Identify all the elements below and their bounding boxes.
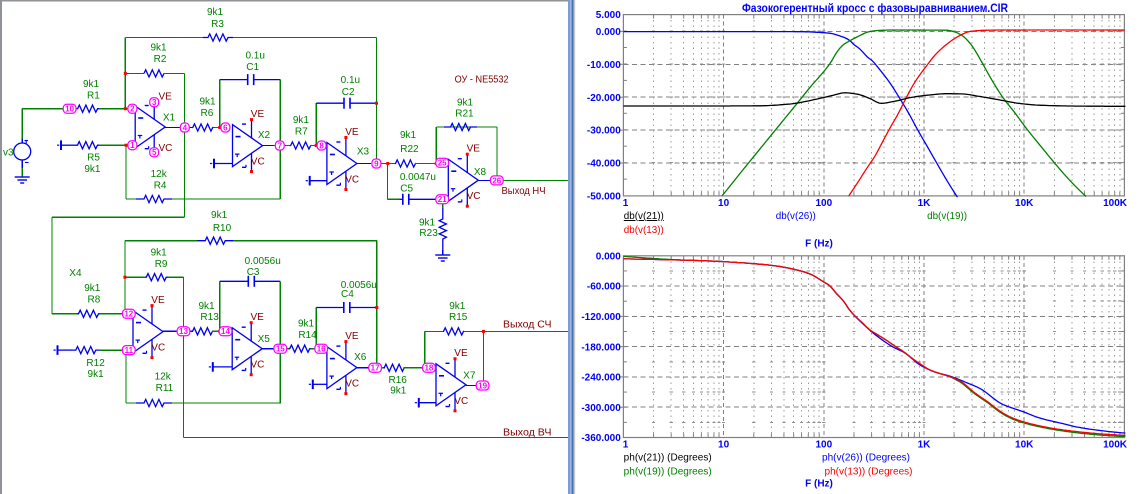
svg-text:F (Hz): F (Hz) xyxy=(805,238,833,249)
svg-text:R1: R1 xyxy=(87,91,100,102)
svg-text:9k1: 9k1 xyxy=(211,210,228,221)
svg-text:X7: X7 xyxy=(463,370,476,381)
svg-text:R3: R3 xyxy=(211,19,224,30)
svg-text:VE: VE xyxy=(251,312,265,323)
svg-text:R13: R13 xyxy=(200,312,219,323)
svg-text:9k1: 9k1 xyxy=(150,43,167,54)
svg-text:100K: 100K xyxy=(1103,440,1128,451)
svg-text:9k1: 9k1 xyxy=(84,283,101,294)
svg-text:17: 17 xyxy=(371,364,380,373)
svg-text:0.0047u: 0.0047u xyxy=(400,172,436,183)
svg-text:VC: VC xyxy=(345,175,359,186)
svg-text:R4: R4 xyxy=(154,180,167,191)
svg-text:6: 6 xyxy=(223,123,228,132)
svg-text:8: 8 xyxy=(319,141,324,150)
svg-text:VC: VC xyxy=(251,157,265,168)
svg-text:X5: X5 xyxy=(258,334,271,345)
svg-text:9k1: 9k1 xyxy=(293,115,310,126)
svg-text:X3: X3 xyxy=(357,147,370,158)
svg-text:R11: R11 xyxy=(156,383,174,394)
svg-text:19: 19 xyxy=(478,381,487,390)
svg-text:12k: 12k xyxy=(151,169,168,180)
svg-text:0.1u: 0.1u xyxy=(341,75,360,86)
svg-text:7: 7 xyxy=(278,141,283,150)
svg-text:100: 100 xyxy=(815,198,832,209)
svg-text:VC: VC xyxy=(251,360,265,371)
svg-text:X2: X2 xyxy=(258,130,271,141)
svg-text:0.000: 0.000 xyxy=(596,27,621,38)
svg-text:12: 12 xyxy=(124,310,133,319)
svg-text:10K: 10K xyxy=(1015,440,1034,451)
svg-text:2: 2 xyxy=(130,105,135,114)
svg-text:9k1: 9k1 xyxy=(88,369,105,380)
svg-text:db(v(19)): db(v(19)) xyxy=(927,211,967,222)
svg-text:R16: R16 xyxy=(389,375,408,386)
svg-text:-30.000: -30.000 xyxy=(587,126,621,137)
svg-text:10: 10 xyxy=(718,440,730,451)
svg-text:16: 16 xyxy=(317,345,326,354)
svg-text:-20.000: -20.000 xyxy=(587,93,621,104)
svg-text:VC: VC xyxy=(467,191,481,202)
svg-text:C2: C2 xyxy=(342,87,355,98)
svg-text:18: 18 xyxy=(424,364,433,373)
svg-text:C5: C5 xyxy=(400,183,413,194)
svg-text:VC: VC xyxy=(159,143,173,154)
svg-text:X1: X1 xyxy=(163,113,176,124)
svg-text:9k1: 9k1 xyxy=(419,218,436,229)
svg-text:9k1: 9k1 xyxy=(198,301,215,312)
svg-text:26: 26 xyxy=(492,176,501,185)
svg-text:C3: C3 xyxy=(247,267,260,278)
svg-text:VE: VE xyxy=(345,127,359,138)
svg-text:5: 5 xyxy=(152,148,157,157)
svg-text:VC: VC xyxy=(345,379,359,390)
svg-text:21: 21 xyxy=(438,195,447,204)
svg-text:VE: VE xyxy=(251,109,265,120)
svg-text:db(v(21)): db(v(21)) xyxy=(624,211,664,222)
svg-text:ph(v(26)) (Degrees): ph(v(26)) (Degrees) xyxy=(822,453,910,464)
svg-text:9k1: 9k1 xyxy=(390,386,407,397)
svg-text:0.0056u: 0.0056u xyxy=(245,256,281,267)
svg-text:R7: R7 xyxy=(295,126,308,137)
svg-text:9k1: 9k1 xyxy=(151,248,168,259)
svg-text:11: 11 xyxy=(125,346,134,355)
svg-text:VE: VE xyxy=(467,144,481,155)
svg-text:VE: VE xyxy=(159,92,173,103)
svg-text:X4: X4 xyxy=(69,268,82,279)
svg-text:9k1: 9k1 xyxy=(207,7,224,18)
svg-text:R23: R23 xyxy=(419,228,438,239)
svg-text:R5: R5 xyxy=(87,153,100,164)
svg-text:-120.000: -120.000 xyxy=(581,312,621,323)
svg-text:1K: 1K xyxy=(918,198,932,209)
svg-text:1: 1 xyxy=(130,141,135,150)
svg-text:1K: 1K xyxy=(918,440,932,451)
svg-text:-300.000: -300.000 xyxy=(581,403,621,414)
svg-text:-240.000: -240.000 xyxy=(581,373,621,384)
svg-text:db(v(13)): db(v(13)) xyxy=(624,225,664,236)
svg-text:9k1: 9k1 xyxy=(298,319,315,330)
svg-text:R14: R14 xyxy=(298,330,317,341)
svg-text:5.000: 5.000 xyxy=(596,10,621,21)
svg-text:9: 9 xyxy=(374,159,379,168)
svg-text:9k1: 9k1 xyxy=(83,79,100,90)
svg-text:100K: 100K xyxy=(1103,198,1128,209)
svg-text:10: 10 xyxy=(718,198,730,209)
svg-text:Выход ВЧ: Выход ВЧ xyxy=(503,428,552,439)
svg-text:Фазокогерентный кросс с фазовы: Фазокогерентный кросс с фазовыравнивание… xyxy=(742,1,1008,15)
svg-text:10K: 10K xyxy=(1015,198,1034,209)
svg-text:R6: R6 xyxy=(201,108,214,119)
svg-text:13: 13 xyxy=(179,327,188,336)
svg-text:0.1u: 0.1u xyxy=(245,50,264,61)
svg-text:14: 14 xyxy=(221,327,230,336)
svg-text:VE: VE xyxy=(151,295,165,306)
svg-text:X8: X8 xyxy=(474,167,487,178)
svg-text:0.000: 0.000 xyxy=(596,251,621,262)
svg-text:C4: C4 xyxy=(341,289,354,300)
svg-text:-40.000: -40.000 xyxy=(587,159,621,170)
svg-text:9k1: 9k1 xyxy=(199,96,216,107)
svg-text:R21: R21 xyxy=(455,108,474,119)
svg-text:X6: X6 xyxy=(354,352,367,363)
svg-text:15: 15 xyxy=(276,345,285,354)
svg-text:VE: VE xyxy=(345,331,359,342)
svg-text:-60.000: -60.000 xyxy=(587,282,621,293)
svg-text:10: 10 xyxy=(65,105,74,114)
svg-text:-180.000: -180.000 xyxy=(581,342,621,353)
svg-text:VC: VC xyxy=(151,343,165,354)
svg-text:12k: 12k xyxy=(155,372,172,383)
svg-text:-50.000: -50.000 xyxy=(587,192,621,203)
svg-text:ph(v(13)) (Degrees): ph(v(13)) (Degrees) xyxy=(825,466,913,477)
svg-text:9k1: 9k1 xyxy=(457,98,474,109)
svg-text:VC: VC xyxy=(454,396,468,407)
svg-text:100: 100 xyxy=(815,440,832,451)
svg-text:v3: v3 xyxy=(3,148,14,159)
svg-text:Выход СЧ: Выход СЧ xyxy=(503,319,552,330)
svg-text:ph(v(21)) (Degrees): ph(v(21)) (Degrees) xyxy=(624,453,712,464)
svg-text:R12: R12 xyxy=(86,358,105,369)
svg-text:R8: R8 xyxy=(88,295,101,306)
svg-text:9k1: 9k1 xyxy=(400,130,417,141)
svg-text:4: 4 xyxy=(183,123,188,132)
svg-text:Выход НЧ: Выход НЧ xyxy=(502,186,546,197)
svg-text:F (Hz): F (Hz) xyxy=(805,479,833,490)
svg-text:ОУ - NE5532: ОУ - NE5532 xyxy=(455,73,509,85)
svg-text:VE: VE xyxy=(454,348,468,359)
svg-text:-360.000: -360.000 xyxy=(581,433,621,444)
svg-text:1: 1 xyxy=(623,440,629,451)
svg-text:R15: R15 xyxy=(449,312,468,323)
svg-text:1: 1 xyxy=(623,198,629,209)
svg-text:C1: C1 xyxy=(246,62,259,73)
svg-text:R10: R10 xyxy=(213,223,232,234)
svg-text:-10.000: -10.000 xyxy=(587,60,621,71)
svg-text:R9: R9 xyxy=(155,259,168,270)
svg-text:db(v(26)): db(v(26)) xyxy=(776,211,816,222)
svg-text:25: 25 xyxy=(438,159,447,168)
svg-text:R2: R2 xyxy=(154,54,167,65)
svg-text:3: 3 xyxy=(152,98,157,107)
svg-text:9k1: 9k1 xyxy=(84,164,101,175)
svg-text:R22: R22 xyxy=(400,144,419,155)
svg-text:ph(v(19)) (Degrees): ph(v(19)) (Degrees) xyxy=(624,466,712,477)
svg-text:9k1: 9k1 xyxy=(449,301,466,312)
